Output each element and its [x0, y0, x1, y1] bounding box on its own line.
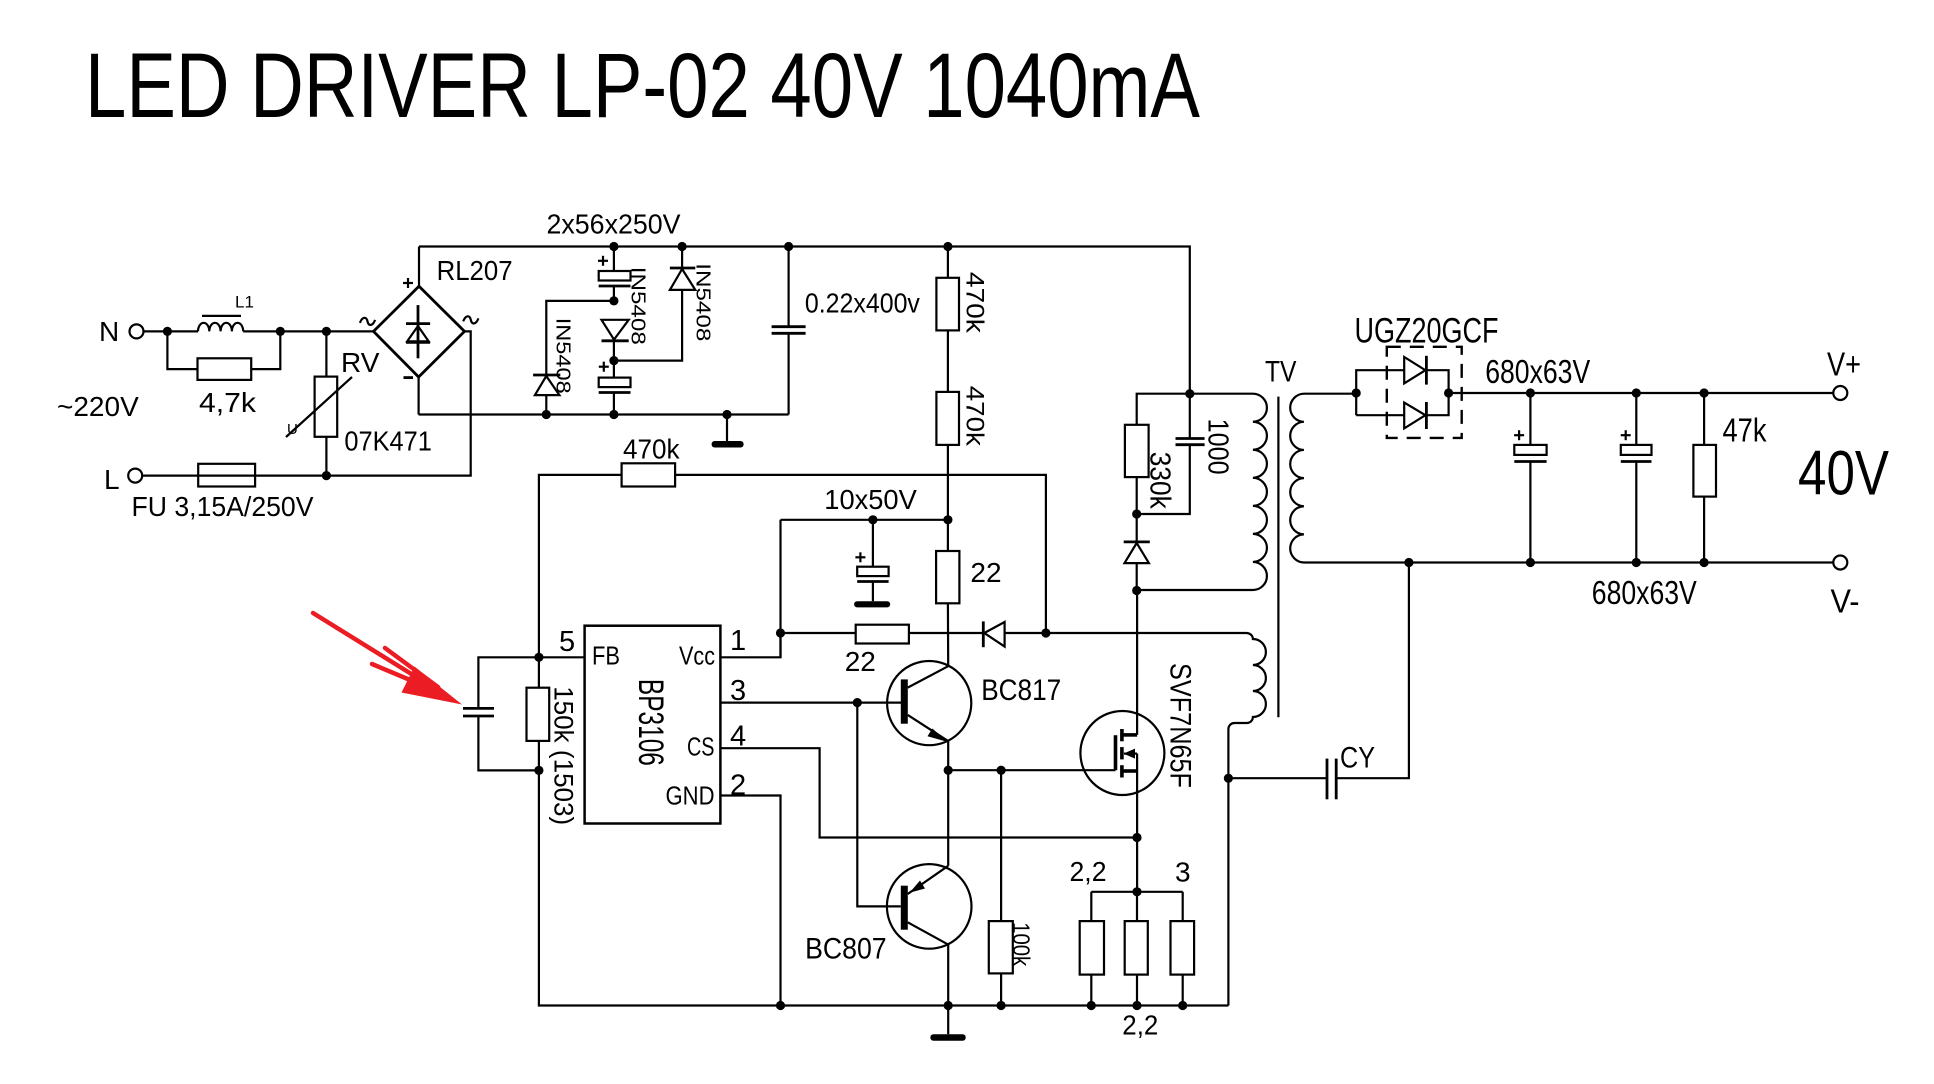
node vm3: [1632, 558, 1641, 567]
svg-text:BC807: BC807: [805, 933, 887, 966]
wire N input: [144, 330, 199, 332]
resistor 22 vertical: [947, 520, 949, 551]
resistor 470k first: [947, 247, 949, 278]
wire varistor top: [325, 331, 327, 376]
transistor BC807: [887, 864, 972, 949]
terminal V minus: [1833, 556, 1847, 570]
bridge minus mark: [404, 376, 414, 379]
node UGZ in: [1352, 388, 1361, 397]
wire L line: [142, 331, 471, 475]
node gnd bus r2: [1132, 1001, 1141, 1010]
capacitor 56u top: [613, 247, 615, 272]
bridge tilde left: [360, 318, 375, 325]
svg-text:470k: 470k: [623, 434, 680, 465]
svg-text:07K471: 07K471: [344, 426, 432, 457]
capacitor 680x63V first plus mark: [1514, 434, 1524, 436]
node bus4: [943, 242, 952, 251]
node FB top: [534, 653, 543, 662]
svg-text:L1: L1: [235, 293, 254, 312]
resistor 47k: [1703, 393, 1705, 445]
wire pin3: [720, 701, 901, 703]
wire aux return: [1227, 778, 1229, 1005]
node vm4: [1700, 558, 1709, 567]
transformer TV primary: [1137, 394, 1267, 590]
svg-text:47k: 47k: [1723, 412, 1767, 449]
node N2: [276, 327, 285, 336]
node gnd bus r1: [1087, 1001, 1096, 1010]
svg-text:IN5408: IN5408: [552, 318, 574, 394]
node cap10 top: [868, 515, 877, 524]
node bus2: [678, 242, 687, 251]
svg-text:40V: 40V: [1798, 439, 1889, 509]
varistor RV: [315, 377, 338, 437]
wire 470k third right: [675, 475, 1046, 633]
svg-text:100k: 100k: [1007, 922, 1034, 967]
ground bottom: [947, 1006, 949, 1035]
diode IN5408 right: [681, 247, 683, 269]
capacitor 680x63V second plus mark: [1621, 434, 1631, 436]
svg-text:V-: V-: [1831, 583, 1860, 620]
bridge internal diode: [417, 305, 420, 358]
svg-text:L: L: [104, 464, 120, 495]
svg-text:CY: CY: [1340, 742, 1375, 775]
wire top DC bus: [419, 247, 1190, 394]
node vcc supply: [943, 515, 952, 524]
wire 470k third left: [539, 475, 622, 657]
transistor BC817: [887, 661, 971, 745]
svg-text:SVF7N65F: SVF7N65F: [1164, 663, 1197, 788]
svg-text:FU 3,15A/250V: FU 3,15A/250V: [132, 491, 314, 522]
wire between 470k: [947, 330, 949, 392]
node aux feed: [1041, 628, 1050, 637]
bridge rectifier RL207: [374, 286, 465, 377]
resistor 22 horizontal: [856, 625, 909, 644]
wire 22 horizontal right: [909, 632, 983, 634]
wire 470k second down: [947, 445, 949, 520]
node CY: [1224, 774, 1233, 783]
capacitor 56u top plus mark: [598, 260, 608, 262]
svg-text:330k: 330k: [1144, 452, 1176, 509]
wire pin1 Vcc: [720, 633, 780, 657]
svg-text:BC817: BC817: [981, 674, 1061, 707]
resistor 470k third: [622, 463, 676, 486]
svg-text:10x50V: 10x50V: [824, 484, 917, 515]
node dcm1: [542, 410, 551, 419]
capacitor 680x63V second: [1635, 393, 1637, 445]
svg-text:~220V: ~220V: [57, 391, 139, 422]
BC807 base wire: [857, 703, 901, 907]
node cap56 mid: [609, 296, 618, 305]
wire to resistor 4,7k left: [167, 331, 197, 369]
svg-text:1000: 1000: [1202, 419, 1234, 475]
diode UGZ bottom: [1404, 403, 1425, 429]
wire gate line: [948, 769, 1115, 771]
svg-text:470k: 470k: [961, 386, 989, 447]
capacitor 56u bottom: [613, 361, 615, 378]
svg-text:RL207: RL207: [437, 255, 513, 286]
MOSFET channel segments: [1120, 729, 1124, 741]
svg-text:1: 1: [730, 625, 746, 657]
terminal N: [130, 324, 144, 338]
BC807 emitter: [908, 866, 949, 894]
capacitor 0.22x400v: [787, 247, 789, 327]
inductor L1: [198, 323, 243, 332]
MOSFET source wire: [1136, 754, 1138, 892]
wire aux feed to winding: [1046, 632, 1246, 634]
wire sense rail: [1091, 891, 1182, 893]
svg-text:Vcc: Vcc: [679, 641, 715, 671]
svg-text:TV: TV: [1265, 356, 1297, 389]
svg-text:N: N: [99, 316, 119, 347]
diode IN5408 middle: [602, 320, 629, 340]
BC807 base bar: [901, 886, 908, 930]
diode IN5408 left: [533, 374, 560, 377]
svg-text:2x56x250V: 2x56x250V: [547, 209, 681, 240]
rectifier UGZ20GCF dashed box: [1387, 347, 1462, 438]
bridge tilde right: [463, 316, 478, 323]
diode snubber: [1136, 514, 1138, 542]
wire UGZ input bracket: [1356, 370, 1404, 415]
wire pin2 GND: [720, 796, 780, 1006]
svg-text:680x63V: 680x63V: [1592, 574, 1697, 611]
svg-text:5: 5: [559, 626, 575, 658]
svg-text:2,2: 2,2: [1070, 856, 1107, 887]
fuse FU: [198, 464, 255, 487]
wire resistor 4,7k right: [251, 331, 280, 369]
svg-text:CS: CS: [687, 732, 715, 762]
node 100k top: [997, 766, 1006, 775]
node vp2: [1632, 388, 1641, 397]
ground top: [726, 415, 728, 442]
terminal V plus: [1833, 386, 1847, 400]
node FB bottom: [534, 766, 543, 775]
node vm1: [1404, 558, 1413, 567]
transformer TV aux winding: [1228, 633, 1266, 778]
svg-text:IN5408: IN5408: [627, 267, 649, 345]
red arrow: [313, 613, 438, 690]
capacitor 56u bottom plus mark: [599, 366, 609, 368]
diode UGZ top: [1404, 357, 1425, 383]
capacitor FB compensation: [478, 657, 539, 708]
svg-text:GND: GND: [666, 781, 715, 811]
wire pin4 CS: [720, 748, 1137, 837]
node source: [1132, 833, 1141, 842]
svg-text:2,2: 2,2: [1122, 1010, 1158, 1041]
node cap56 bottom: [609, 356, 618, 365]
wire to left diode: [546, 301, 614, 375]
diode vcc feed: [982, 621, 985, 647]
MOSFET body arrow: [1124, 752, 1137, 754]
node N1: [163, 327, 172, 336]
svg-text:3: 3: [1175, 857, 1191, 888]
wire bridge top to bus: [418, 247, 420, 287]
node UGZ out: [1444, 388, 1453, 397]
node bus3: [784, 242, 793, 251]
svg-text:IN5408: IN5408: [691, 263, 713, 341]
ground mid: [854, 601, 890, 607]
svg-text:4,7k: 4,7k: [199, 387, 257, 418]
MOSFET gate bar: [1114, 735, 1118, 770]
resistor 2,2 middle: [1136, 892, 1138, 921]
BC817 collector: [908, 666, 949, 687]
node sense: [1132, 887, 1141, 896]
IC BP3106: [585, 626, 721, 824]
svg-text:2: 2: [730, 770, 746, 802]
svg-text:LED DRIVER LP-02 40V 1040mA: LED DRIVER LP-02 40V 1040mA: [85, 35, 1201, 137]
svg-text:22: 22: [970, 557, 1001, 588]
svg-text:UGZ20GCF: UGZ20GCF: [1355, 312, 1499, 351]
resistor 2,2 left: [1090, 892, 1092, 921]
resistor 150k: [538, 657, 540, 687]
wire DC minus bus: [419, 413, 789, 415]
BC817 emitter: [908, 715, 948, 741]
MOSFET source stub: [1122, 769, 1137, 773]
wire pin5 FB: [539, 656, 585, 658]
svg-text:U: U: [287, 421, 298, 438]
svg-text:BP3106: BP3106: [631, 679, 670, 766]
transformer TV secondary: [1290, 394, 1409, 563]
wire FB bottom down: [539, 770, 1229, 1005]
node dcm2: [609, 410, 618, 419]
node primary top: [1185, 389, 1194, 398]
node vcc pin1: [776, 628, 785, 637]
node vm2: [1526, 558, 1535, 567]
svg-text:0.22x400v: 0.22x400v: [805, 288, 920, 319]
svg-text:22: 22: [845, 646, 876, 677]
wire to 330k: [1137, 394, 1190, 425]
node vp3: [1700, 388, 1709, 397]
resistor 470k second: [936, 392, 959, 445]
node gnd bus r3: [1178, 1001, 1187, 1010]
wire 22 vertical down to BC817 collector: [947, 603, 949, 666]
capacitor 10x50V: [872, 520, 874, 567]
svg-text:V+: V+: [1827, 346, 1861, 383]
node gnd bus 100k: [997, 1001, 1006, 1010]
node gnd bus bc807: [944, 1001, 953, 1010]
capacitor CY: [1335, 759, 1338, 800]
node base BC817: [853, 698, 862, 707]
resistor 330k: [1125, 425, 1149, 477]
node dcm3: [722, 410, 731, 419]
wire UGZ output bracket: [1426, 370, 1448, 415]
capacitor 10x50V plus mark: [855, 556, 865, 558]
wire V plus rail: [1449, 392, 1834, 394]
bridge plus mark: [403, 282, 413, 284]
resistor 3 right: [1182, 892, 1184, 921]
wire V minus to CY: [1336, 563, 1409, 779]
BC817 base bar: [901, 679, 908, 723]
MOSFET drain wire: [1136, 591, 1138, 735]
wire V minus rail: [1409, 561, 1833, 563]
svg-text:150k (1503): 150k (1503): [549, 686, 579, 825]
capacitor 680x63V first: [1529, 393, 1531, 445]
node N3: [322, 327, 331, 336]
node vp1: [1526, 388, 1535, 397]
node snubber: [1132, 509, 1141, 518]
node bus1: [609, 242, 618, 251]
resistor 100k: [1000, 770, 1002, 921]
transformer core: [1277, 397, 1279, 718]
BC807 collector: [908, 922, 948, 944]
svg-text:RV: RV: [341, 347, 380, 378]
node gate drive left: [944, 766, 953, 775]
node gnd bus pin2: [776, 1001, 785, 1010]
terminal L: [128, 469, 142, 483]
wire 22 horizontal left: [781, 632, 856, 634]
node L1n: [322, 471, 331, 480]
wire 10x50V rail: [781, 519, 948, 521]
wire varistor bottom: [325, 437, 327, 476]
svg-text:FB: FB: [592, 641, 620, 671]
node drain: [1132, 586, 1141, 595]
MOSFET SVF7N65F: [1080, 711, 1164, 795]
wire bridge bottom: [418, 377, 420, 415]
capacitor 1000: [1189, 394, 1191, 439]
svg-text:470k: 470k: [961, 272, 989, 334]
svg-text:680x63V: 680x63V: [1485, 353, 1590, 390]
resistor 4,7k: [198, 358, 252, 380]
wire L1 to bridge: [243, 330, 373, 332]
